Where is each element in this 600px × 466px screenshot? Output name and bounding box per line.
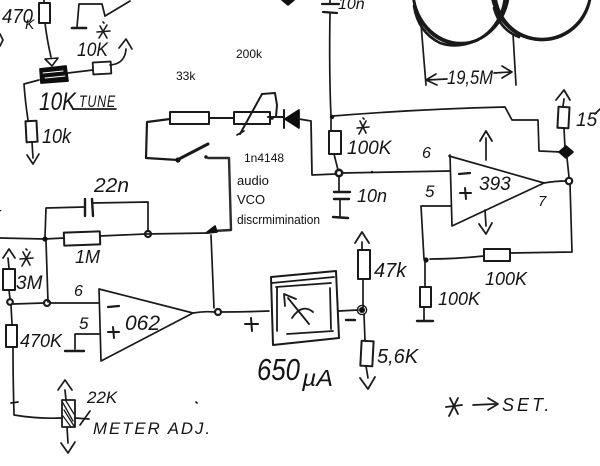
arrow up 47k — [355, 232, 369, 249]
wire 33k left branch — [146, 119, 178, 160]
svg-text:22K: 22K — [86, 388, 118, 407]
wire input row — [13, 303, 44, 304]
svg-text:47k: 47k — [374, 260, 407, 282]
node B dot — [423, 257, 428, 262]
wire switch to VCO column — [208, 158, 231, 231]
wire bus down to input row — [46, 241, 48, 302]
wire output to meter — [221, 311, 269, 312]
label METER ADJ. — [93, 402, 212, 438]
potentiometer 10K TUNE body — [40, 66, 68, 83]
wire 200k to diode — [268, 116, 284, 118]
wire pot left down to 10k resistor — [24, 80, 39, 120]
label 470K — [2, 6, 35, 32]
svg-text:5: 5 — [79, 314, 89, 333]
node 3M open circle — [7, 299, 13, 305]
node bus junction dot — [42, 236, 47, 241]
resistor 100K asterisk branch — [329, 119, 341, 170]
wire node B to 100K vertical — [424, 262, 426, 287]
capacitor 10n top — [322, 0, 339, 13]
svg-text:1n4148: 1n4148 — [244, 151, 284, 165]
svg-text:200k: 200k — [236, 47, 263, 61]
label minus meter — [346, 319, 355, 321]
svg-text:100K: 100K — [485, 269, 528, 289]
arrowhead cut at top edge — [282, 0, 294, 5]
wire node C up to 47k — [362, 279, 364, 307]
resistor 3M — [3, 269, 15, 290]
svg-text:7: 7 — [538, 193, 547, 210]
arrow down 22K — [61, 427, 75, 453]
asterisk SET — [446, 398, 462, 416]
asterisk 100K — [357, 118, 369, 134]
svg-text:33k: 33k — [176, 69, 196, 83]
resistor 10K horizontal — [93, 62, 112, 75]
arrow up inside 393 — [480, 131, 492, 160]
resistor 100K vertical — [420, 287, 431, 307]
resistor 470K bottom — [6, 305, 17, 347]
wire 393 output — [544, 181, 566, 183]
wire feedback top to diamond — [333, 107, 561, 152]
arrow up bent — [110, 39, 132, 65]
wire meter to node C — [339, 310, 358, 311]
arrow right 19,5M — [494, 66, 512, 78]
coil circle 2 — [491, 0, 591, 40]
svg-text:100K: 100K — [347, 138, 393, 159]
resistor 1M — [64, 231, 100, 245]
wire 470K down to meter adj — [13, 348, 14, 414]
wire 33k to 200k — [209, 117, 233, 119]
potentiometer 22K — [62, 400, 90, 427]
svg-text:K: K — [25, 16, 35, 32]
wire output down to 100K feedback — [510, 184, 572, 253]
svg-text:22n: 22n — [93, 175, 129, 197]
node C dot — [357, 305, 366, 314]
wire 15K to diamond — [564, 128, 565, 148]
op-amp U1 393 — [449, 155, 544, 226]
arrow down 5,6K — [360, 366, 375, 389]
wire VCO column down to output — [211, 235, 214, 308]
wire bus right of 1M — [100, 233, 209, 236]
node diamond junction — [559, 146, 573, 158]
arrow up supply 15K — [556, 90, 570, 106]
node 22n open circle — [145, 231, 151, 237]
measure line right — [513, 34, 516, 85]
label 650uA — [257, 352, 333, 391]
wire resistor to pot arrow — [45, 23, 51, 57]
label plus meter — [245, 318, 258, 331]
svg-text:5,6K: 5,6K — [377, 346, 420, 368]
node 062 output open circle — [215, 309, 221, 315]
svg-text:6: 6 — [74, 283, 83, 300]
ground below 100K — [417, 307, 433, 321]
wire diagonal top — [105, 1, 130, 16]
arrowhead down onto pot — [45, 58, 58, 66]
wire 100K to node B — [430, 256, 484, 259]
measure line left — [421, 24, 426, 85]
arrow up 3M — [3, 249, 15, 268]
wire node A to op-amp input 6 — [342, 171, 450, 173]
wire main bus — [0, 238, 64, 239]
arrow down below 393 — [479, 210, 492, 234]
coil circle 1 — [413, 0, 509, 45]
svg-text:10n: 10n — [357, 186, 387, 206]
asterisk 3M — [20, 249, 33, 266]
wire plus input to ground — [75, 334, 99, 349]
wire left edge small mark — [0, 34, 3, 46]
node output open circle — [566, 178, 572, 184]
asterisk top-left — [97, 22, 110, 38]
wire 10n down to node — [330, 13, 331, 117]
label 10K TUNE — [39, 88, 116, 116]
svg-text:SET.: SET. — [502, 395, 552, 415]
svg-text:19,5M: 19,5M — [447, 68, 493, 89]
resistor 10k left vertical — [25, 121, 37, 143]
svg-text:discrmimination: discrmimination — [237, 212, 320, 227]
svg-text:audio: audio — [237, 173, 269, 188]
svg-text:5: 5 — [425, 182, 435, 201]
resistor 33k — [170, 112, 209, 124]
capacitor 22n branch — [45, 199, 148, 237]
arrow left 19,5M — [426, 74, 447, 85]
svg-text:393: 393 — [479, 174, 511, 195]
arrow down below 10k — [27, 142, 39, 164]
arrowhead onto bus junction — [206, 226, 217, 233]
op-amp U2 062 — [99, 289, 193, 361]
resistor 5,6K — [360, 341, 373, 367]
svg-text:10k: 10k — [42, 126, 72, 148]
diode 1n4148 — [284, 110, 299, 128]
svg-text:µA: µA — [301, 365, 333, 391]
arrow up 22K — [58, 380, 72, 400]
wire 3M to node — [9, 290, 10, 299]
svg-text:VCO: VCO — [237, 192, 265, 207]
wire node C down to 5,6K — [364, 314, 365, 341]
ground top-middle — [72, 4, 105, 28]
resistor 470K top-left — [39, 0, 50, 23]
ground 062 plus input — [65, 350, 84, 352]
svg-text:15: 15 — [576, 110, 598, 131]
arrow SET — [473, 398, 498, 410]
potentiometer 200k — [234, 93, 277, 135]
capacitor 10n lower — [333, 176, 350, 218]
node A open circle — [336, 170, 342, 176]
wire to 22K pot — [14, 415, 62, 418]
svg-text:METER ADJ.: METER ADJ. — [93, 419, 212, 438]
resistor 47k — [358, 250, 370, 279]
svg-text:3M: 3M — [16, 273, 43, 294]
svg-text:10n: 10n — [338, 0, 365, 13]
svg-text:650: 650 — [257, 352, 300, 387]
wire diamond to output node — [567, 158, 569, 177]
node dot feedback — [330, 115, 334, 119]
svg-text:100K: 100K — [438, 289, 481, 309]
wire pot to 10K resistor — [68, 70, 93, 73]
svg-text:6: 6 — [422, 145, 431, 162]
svg-text:10K: 10K — [77, 40, 109, 61]
switch S1 — [175, 144, 208, 163]
resistor 15K — [557, 107, 569, 129]
svg-text:470K: 470K — [20, 331, 63, 351]
wire 062 output — [193, 312, 214, 313]
resistor 100K horizontal right — [484, 249, 510, 261]
svg-text:062: 062 — [125, 312, 160, 335]
wire 5-input down to node B — [421, 206, 451, 259]
node open circle input row — [44, 300, 50, 306]
wire diode to node A — [299, 119, 336, 175]
svg-text:1M: 1M — [75, 247, 100, 267]
svg-text:10K: 10K — [39, 88, 77, 116]
meter M1 — [271, 271, 339, 345]
